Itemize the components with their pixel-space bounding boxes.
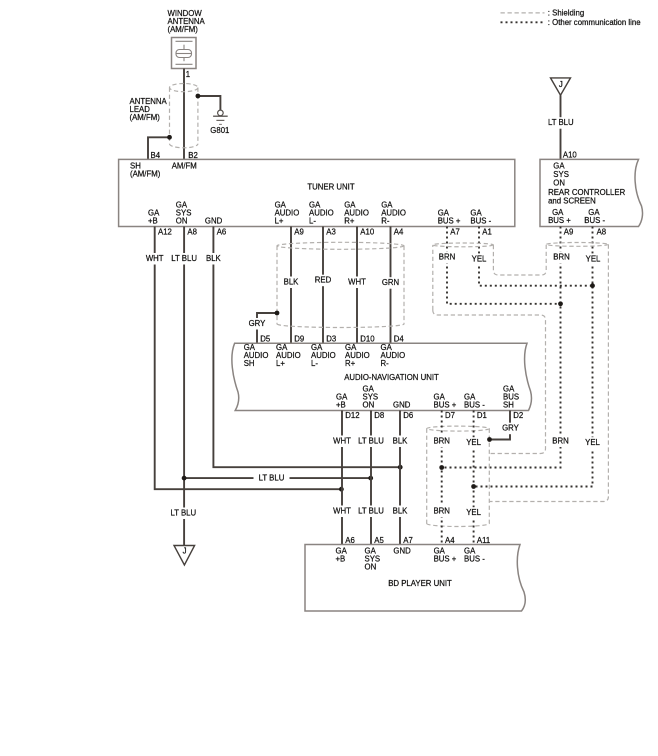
svg-text:GRN: GRN [382,278,399,287]
svg-text:J: J [183,547,187,556]
svg-text:: Other communication line: : Other communication line [548,18,641,27]
label BRN row1 left [437,252,458,264]
tuner pin A6 [217,228,227,237]
nav pin D1 [477,411,487,420]
svg-text:A7: A7 [450,228,460,237]
svg-text:L+: L+ [275,217,284,226]
nav pin D4 [394,335,405,344]
junction LT BLU to J [182,476,187,481]
svg-text:D8: D8 [374,411,384,420]
svg-text:D4: D4 [394,335,405,344]
pin 1 [186,70,190,79]
svg-text:SH: SH [503,400,514,409]
svg-text:ON: ON [176,217,188,226]
bd pin A7 [403,536,413,545]
tuner label GA +B [148,209,160,226]
svg-text:A9: A9 [294,228,304,237]
svg-text:D5: D5 [260,335,271,344]
label BRN row2 [431,436,452,448]
svg-text:WHT: WHT [146,254,164,263]
tuner pin A9 [294,228,304,237]
junction BLK to D6 [398,465,403,470]
audio-navigation unit title [344,373,439,382]
svg-text:(AM/FM): (AM/FM) [130,113,161,122]
svg-text:D7: D7 [445,411,455,420]
label GRY audio [247,318,268,330]
rear controller title [548,188,625,205]
svg-text:A9: A9 [564,228,574,237]
rear label GA BUS - [584,208,605,225]
svg-text:BUS -: BUS - [464,555,485,564]
junction LT BLU to D8 [368,476,373,481]
svg-text:BLK: BLK [393,507,409,516]
shield comm tuner top ellipse [433,243,494,247]
shield comm upper dashed outline [433,244,609,501]
label BRN row2 right [550,436,571,448]
wire WHT audio R+ [356,227,358,344]
rear pin A8 [597,228,607,237]
rear pin A9 [564,228,574,237]
svg-text:+B: +B [148,217,158,226]
svg-text:: Shielding: : Shielding [548,9,584,18]
svg-text:YEL: YEL [585,438,600,447]
svg-text:A6: A6 [217,228,227,237]
svg-text:BLK: BLK [284,278,300,287]
svg-text:BUS +: BUS + [548,216,571,225]
junction shield drain [196,94,201,99]
tuner unit title [307,183,354,192]
svg-text:A5: A5 [374,536,384,545]
label BRN row3 [431,506,452,518]
label YEL row3 [464,507,484,519]
bd label GA BUS + [434,547,457,564]
nav pin D7 [445,411,455,420]
svg-text:A10: A10 [563,150,578,159]
nav label GA AUDIO L+ [276,343,301,368]
svg-text:A6: A6 [345,536,355,545]
junction YEL A8-D1 [471,484,476,489]
tuner label GA AUDIO L- [309,201,334,226]
svg-text:+B: +B [336,400,346,409]
svg-text:GRY: GRY [502,424,520,433]
junction GRY nav shield [487,437,492,442]
svg-text:1: 1 [186,70,190,79]
svg-text:ON: ON [553,179,565,188]
label YEL row2 right [583,437,603,449]
wire BLK from tuner A6 [213,227,400,468]
connector J to rear controller [551,78,571,95]
legend shielding dashed sample [501,9,585,18]
svg-text:A11: A11 [477,536,490,545]
bd pin A4 [445,536,455,545]
svg-text:D10: D10 [360,335,375,344]
pin B4 [151,151,161,160]
svg-text:WHT: WHT [333,507,351,516]
label WHT row1 [144,253,166,265]
svg-text:A4: A4 [445,536,455,545]
svg-text:(AM/FM): (AM/FM) [130,169,161,178]
junction YEL A1-A8 [590,283,595,288]
wire BRN from rear A9 [442,227,561,468]
label WHT row2 [331,436,353,448]
antenna lead label [130,97,168,122]
svg-text:AM/FM: AM/FM [172,162,197,171]
label LT BLU horizontal [254,473,290,485]
bd pin A5 [374,536,384,545]
nav pin D3 [326,335,336,344]
svg-text:A8: A8 [187,228,197,237]
svg-text:R-: R- [381,217,390,226]
wire YEL from rear A8 [474,227,593,487]
svg-text:ON: ON [365,563,377,572]
wire RED audio L- [322,227,324,344]
bd label GND [393,547,411,556]
wire LT BLU D8 to A5 [370,411,372,545]
label RED audio [313,275,333,287]
junction shield B4 [167,135,172,140]
svg-text:BRN: BRN [433,437,449,446]
svg-text:YEL: YEL [472,254,487,263]
label LT BLU wire [547,117,575,129]
wire LT BLU horizontal [184,477,371,479]
tuner pin A8 [187,228,197,237]
wire LT BLU from tuner A8 [183,227,185,546]
nav pin D6 [403,411,413,420]
svg-text:BUS +: BUS + [434,400,457,409]
svg-text:AUDIO-NAVIGATION UNIT: AUDIO-NAVIGATION UNIT [344,373,439,382]
svg-text:LT BLU: LT BLU [548,118,574,127]
svg-text:BRN: BRN [552,437,568,446]
bd pin A6 [345,536,355,545]
tuner pin A1 [482,228,492,237]
shield comm nav dashed outline [427,426,490,526]
svg-text:YEL: YEL [466,438,481,447]
tuner label GA BUS + [438,209,461,226]
ground label G801 [210,126,229,135]
tuner pin A10 [360,228,375,237]
bd label GA SYS ON [365,547,381,572]
tuner pin A3 [326,228,336,237]
junction GRY audio shield [275,311,280,316]
svg-text:GRY: GRY [249,319,267,328]
nav label GA BUS SH [503,384,519,409]
svg-text:BLK: BLK [206,254,222,263]
svg-text:D12: D12 [345,411,359,420]
nav label GA AUDIO R+ [345,343,370,368]
wire BLK audio L+ [290,227,292,344]
svg-text:D9: D9 [294,335,304,344]
nav pin D12 [345,411,359,420]
tuner pin A4 [394,228,404,237]
nav pin D8 [374,411,384,420]
label BLK row2 [390,436,410,448]
svg-text:BD PLAYER UNIT: BD PLAYER UNIT [388,579,452,588]
wire WHT D12 to A6 [341,411,343,545]
nav label GA SYS ON [363,384,379,409]
nav label GA +B [336,392,348,409]
tuner label GA AUDIO R+ [344,201,369,226]
svg-text:A8: A8 [597,228,607,237]
audio-navigation unit box [232,343,532,410]
nav label GA BUS + [434,392,457,409]
svg-text:WHT: WHT [333,437,351,446]
ground G801 symbol [213,110,228,124]
nav pin D5 [260,335,271,344]
wire shield to B4 [148,137,170,159]
tuner label GA SYS ON [176,201,192,226]
svg-text:L-: L- [309,217,316,226]
nav label GA AUDIO L- [311,343,336,368]
bd label GA BUS - [464,547,485,564]
svg-text:BRN: BRN [433,507,449,516]
junction WHT to D12 [339,487,344,492]
nav label GA AUDIO SH [244,343,269,368]
label LT BLU row2 [357,436,385,448]
svg-text:BUS -: BUS - [464,400,485,409]
svg-text:D2: D2 [513,411,523,420]
svg-text:+B: +B [336,555,346,564]
svg-text:WHT: WHT [348,278,366,287]
nav label GA BUS - [464,392,485,409]
wire antenna lead [183,69,185,160]
svg-text:A1: A1 [482,228,492,237]
svg-text:SH: SH [244,359,255,368]
tuner label GA AUDIO L+ [275,201,300,226]
svg-text:GND: GND [393,400,411,409]
wire BRN from tuner A7 [447,227,561,304]
svg-text:LT BLU: LT BLU [171,254,197,263]
svg-text:G801: G801 [210,126,229,135]
tuner pin A7 [450,228,460,237]
window antenna component [172,38,197,69]
nav pin D2 [513,411,523,420]
svg-text:D3: D3 [326,335,336,344]
label YEL row1 right [583,253,603,265]
svg-text:GND: GND [393,547,411,556]
svg-text:L-: L- [311,359,318,368]
rear label GA BUS + [548,208,571,225]
label WHT row3 [331,506,353,518]
bd pin A11 [477,536,490,545]
svg-text:A12: A12 [158,228,172,237]
svg-text:LT BLU: LT BLU [358,507,384,516]
tuner label GA AUDIO R- [381,201,406,226]
label BLK audio [281,277,301,289]
svg-text:D6: D6 [403,411,413,420]
svg-text:LT BLU: LT BLU [358,437,384,446]
legend other communication line dotted sample [501,18,641,27]
svg-text:A3: A3 [326,228,336,237]
wire YEL D1 to A11 [473,411,475,545]
wire YEL from tuner A1 [479,227,593,286]
svg-text:TUNER UNIT: TUNER UNIT [307,183,354,192]
label WHT audio [346,277,368,289]
pin A10 [563,150,578,159]
svg-text:A10: A10 [360,228,375,237]
junction BRN A7-A9 [558,301,563,306]
svg-text:(AM/FM): (AM/FM) [168,25,199,34]
junction BRN A9-D7 [439,465,444,470]
label LT BLU row1 [170,253,198,265]
svg-text:BUS +: BUS + [438,217,461,226]
tuner pin label AM/FM [172,162,197,171]
pin B2 [188,151,198,160]
tuner label GA BUS - [470,209,491,226]
svg-text:GND: GND [205,217,223,226]
svg-text:R-: R- [381,359,390,368]
shield antenna lead dashed [170,84,198,148]
wire BRN D7 to A4 [441,411,443,545]
shield comm rear top ellipse [546,243,608,247]
wire BLK D6 to A7 [399,411,401,545]
svg-text:L+: L+ [276,359,285,368]
svg-text:ON: ON [363,400,375,409]
tuner pin A12 [158,228,172,237]
wire LT BLU to A10 [560,95,562,159]
wire shield drain to G801 [198,96,221,110]
svg-text:B4: B4 [151,151,161,160]
svg-text:A7: A7 [403,536,413,545]
shield audio dashed [277,242,404,327]
connector J bottom [174,546,195,566]
label BRN row1 right [551,252,572,264]
bd player unit title [388,579,452,588]
label GRN audio [380,277,401,289]
svg-text:YEL: YEL [586,254,601,263]
svg-text:B2: B2 [188,151,198,160]
label GRY nav [500,423,521,435]
wire WHT from tuner A12 [155,227,342,490]
bd label GA +B [336,547,348,564]
svg-text:YEL: YEL [466,508,481,517]
svg-text:D1: D1 [477,411,487,420]
svg-text:BUS -: BUS - [584,216,605,225]
svg-text:R+: R+ [344,217,355,226]
svg-text:R+: R+ [345,359,356,368]
rear label GA SYS ON [553,161,569,187]
svg-text:BUS +: BUS + [434,555,457,564]
svg-text:BRN: BRN [439,253,455,262]
svg-text:LT BLU: LT BLU [259,474,285,483]
svg-text:J: J [559,80,563,89]
wire GRY D2 shield drain [490,411,511,440]
svg-text:A4: A4 [394,228,404,237]
label YEL row2 [464,437,484,449]
wire GRN audio R- [390,227,392,344]
tuner label GND [205,217,223,226]
svg-text:BRN: BRN [553,253,569,262]
tuner unit box [119,159,515,226]
label YEL row1 left [469,253,489,265]
svg-text:BUS -: BUS - [470,217,491,226]
nav label GA AUDIO R- [381,343,406,368]
nav pin D10 [360,335,375,344]
shield comm lower dashed outline [433,310,546,454]
svg-text:BLK: BLK [393,437,409,446]
label BLK row3 [390,506,410,518]
nav pin D9 [294,335,304,344]
svg-text:RED: RED [315,276,332,285]
rear controller and screen box [540,159,643,226]
bd player unit box [305,545,525,612]
window antenna label [168,9,206,34]
label BLK row1 [203,253,223,265]
svg-text:and SCREEN: and SCREEN [548,196,596,205]
nav label GND [393,400,411,409]
label LT BLU bottom [169,508,197,520]
svg-text:LT BLU: LT BLU [170,509,196,518]
tuner pin label SH AM/FM [130,162,161,179]
label LT BLU row3 [357,506,385,518]
wire GRY audio shield drain [257,313,277,343]
